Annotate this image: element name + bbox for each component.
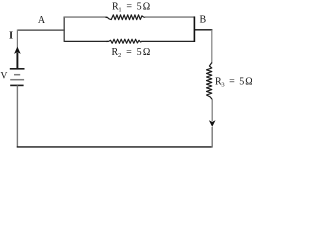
arrow (current, pointing down) on right wire [209, 120, 216, 127]
svg-text:I: I [9, 30, 13, 41]
wire: bottom branch left segment [64, 40, 108, 42]
battery V plate 4 (bottom, long, black) [10, 84, 23, 86]
resistor R3 zigzag (vertical) [207, 63, 213, 100]
wire: right vertical lower segment [211, 127, 213, 148]
resistor R2 zigzag [107, 39, 142, 43]
wire: feed from left wire to node A junction [17, 29, 65, 31]
wire: exit from box to node B corner [194, 29, 212, 31]
svg-text:R2 = 5Ω: R2 = 5Ω [112, 47, 152, 59]
wire: bottom horizontal [17, 146, 213, 148]
wire: right vertical middle segment (below R3) [211, 99, 213, 121]
battery V plate 3 (long, gray) [10, 79, 24, 81]
svg-text:B: B [200, 15, 207, 26]
arrow (current I, pointing up) on left wire [14, 47, 21, 54]
wire: bottom branch right segment [141, 40, 195, 42]
svg-text:R1 = 5Ω: R1 = 5Ω [112, 1, 151, 13]
battery V plate 1 (top, long, black) [10, 68, 25, 70]
wire: left vertical upper segment [16, 30, 18, 49]
wire: parallel-box right edge [193, 17, 195, 43]
wire: top branch left segment [64, 16, 107, 18]
svg-text:R3 = 5Ω: R3 = 5Ω [215, 76, 252, 88]
svg-text:A: A [38, 15, 46, 26]
resistor R1 zigzag [106, 15, 146, 20]
wire: parallel-box left edge [63, 17, 65, 42]
wire: left vertical lower segment [16, 85, 18, 147]
wire: right vertical upper segment (below B) [211, 30, 213, 64]
battery V plate 2 (short, gray) [14, 74, 20, 76]
svg-text:V: V [1, 72, 8, 82]
wire: top branch right segment [145, 16, 195, 18]
